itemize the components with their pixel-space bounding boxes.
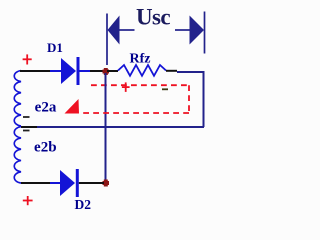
wire bottom black (coil to D2) (21, 182, 50, 184)
dashed current loop top (red) (91, 84, 189, 86)
wire mid vertical navy (D1 junction down to D2 junction) (105, 73, 107, 181)
diode D2 (60, 170, 75, 196)
wire junction to resistor black (107, 70, 118, 72)
wire top black (coil to D1) (20, 70, 50, 72)
resistor Rfz zigzag (118, 65, 166, 76)
transformer winding e2b (coil) (14, 127, 21, 184)
Usc right bar (204, 12, 206, 54)
wire after D2 black to junction (79, 182, 104, 184)
dashed current loop bottom (red) (80, 112, 189, 114)
wire center-tap black near coil (21, 126, 37, 128)
svg-text:Rfz: Rfz (130, 52, 151, 67)
wire bottom blue (50, 182, 60, 184)
wire after D1 blue (80, 70, 91, 72)
diode D1 (61, 58, 76, 84)
node junction top (maroon dot) (103, 68, 110, 75)
transformer winding e2a (coil) (14, 71, 21, 126)
svg-text:D1: D1 (47, 40, 63, 55)
wire top blue (to D1 anode) (50, 70, 61, 72)
svg-text:e2a: e2a (35, 100, 57, 116)
minus mark coil upper (23, 116, 30, 118)
svg-text:D2: D2 (75, 197, 92, 210)
Usc left bar (106, 14, 108, 66)
svg-text:Usc: Usc (136, 4, 170, 29)
plus mark top-left (red) (23, 54, 32, 64)
wire center-tap navy (right corner back to coil) (37, 126, 204, 128)
wire right navy to corner (177, 72, 204, 127)
plus mark bottom-left (red) (23, 196, 33, 205)
Usc left arrow (108, 16, 120, 45)
node junction bottom (maroon dot) (103, 180, 110, 187)
minus mark on dashed line (olive) (162, 88, 168, 90)
dashed current loop right (red) (188, 85, 190, 113)
Usc right arrow (175, 29, 190, 31)
minus mark coil lower (23, 130, 30, 132)
wire after resistor black (166, 70, 177, 72)
wire after D1 black to junction (90, 70, 104, 72)
current arrowhead (red triangle) (65, 99, 80, 114)
svg-text:e2b: e2b (34, 140, 57, 156)
plus mark on dashed line (red) (122, 82, 130, 92)
